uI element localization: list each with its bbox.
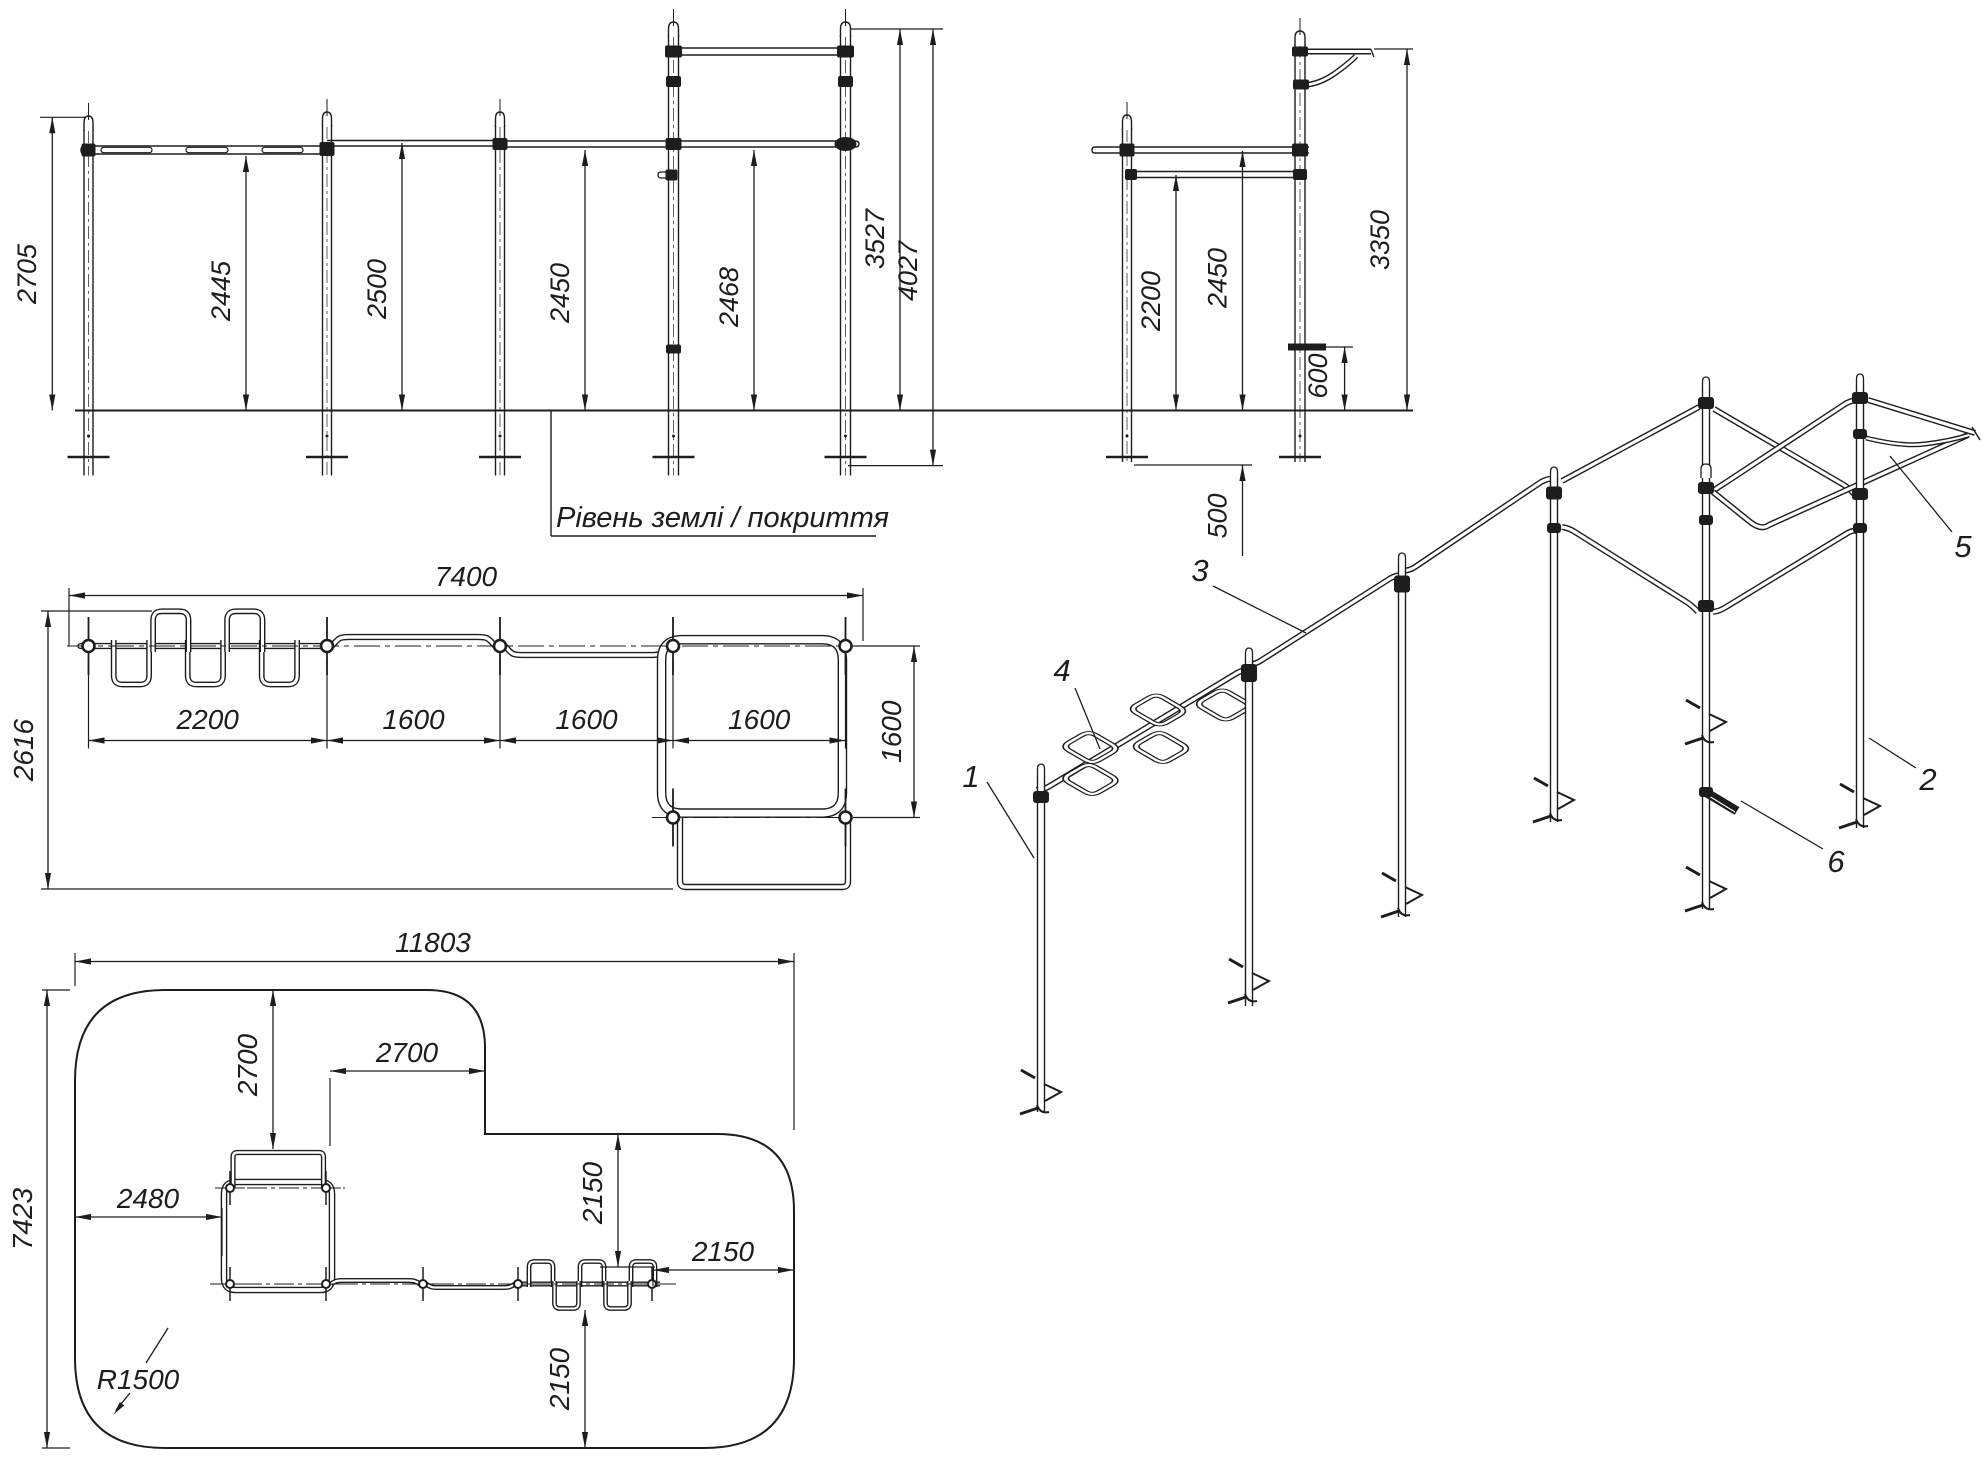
plan node post (845.5,646): [845, 617, 847, 675]
plan square bottom axis: [652, 817, 864, 819]
iso bar BL-FL: [1562, 527, 1698, 612]
post, bay1 left (2705): [83, 129, 85, 476]
side bar 2450: [1092, 147, 1309, 153]
dim 2500: [401, 143, 403, 411]
svg-text:2150: 2150: [577, 1161, 608, 1225]
dim 2700 vertical: [272, 990, 274, 1149]
FL cap dome: [1698, 397, 1714, 409]
high bar between tall posts (3527): [668, 47, 851, 49]
tall post right (4027): [840, 35, 842, 476]
iso serpentine rail: [1036, 670, 1254, 791]
svg-text:1600: 1600: [382, 704, 445, 735]
dim 2700 horizontal: [329, 1078, 331, 1146]
plan bar 1600 (below axis): [505, 646, 668, 655]
svg-text:1: 1: [962, 759, 979, 794]
dim 2150 horizontal: [652, 1270, 654, 1286]
iso serpentine loop up1: [1062, 731, 1119, 764]
mini square bar ring: [224, 1182, 332, 1290]
iso serpentine loop up2: [1130, 694, 1187, 727]
iso high bar FL-FR: [1712, 400, 1856, 492]
plan node post (327,646): [326, 617, 328, 675]
leader 1: [987, 782, 1034, 858]
mini node (423,1284): [422, 1267, 424, 1301]
clamp high bar left: [665, 46, 682, 58]
mini bar 1: [331, 1281, 420, 1285]
svg-text:2450: 2450: [545, 263, 575, 324]
dim 2450: [584, 150, 586, 411]
dim 2150 vertical upper: [600, 1266, 655, 1268]
mini node (518,1284): [517, 1267, 519, 1301]
dim 2468: [753, 150, 755, 411]
clamp post1/rail: [82, 144, 96, 157]
collar ring tall post right: [838, 76, 853, 87]
iso bar BR-FR: [1714, 409, 1854, 494]
mini bar 2: [426, 1284, 515, 1288]
svg-text:5: 5: [1954, 529, 1972, 564]
mini up-loop 2: [580, 1262, 604, 1288]
bar bay2 (2500): [327, 140, 500, 142]
svg-text:2150: 2150: [691, 1236, 755, 1267]
mini down-loop 2: [606, 1281, 630, 1309]
iso mid column BR over FL: [1702, 389, 1710, 909]
dim 2450 side: [1242, 151, 1244, 411]
mini node (230,1188): [229, 1171, 231, 1205]
dim 1600 vertical right: [853, 645, 920, 647]
site plan outline: [75, 990, 794, 1448]
ground-level leader: [550, 411, 552, 537]
iso rail P2-P3: [1249, 575, 1402, 665]
svg-text:600: 600: [1303, 353, 1333, 398]
plan node post (500,646): [499, 617, 501, 675]
dim 2150 vertical lower: [584, 1310, 586, 1448]
plan node post (88.5,646): [88, 617, 90, 675]
plan serpentine down-loop 2: [188, 640, 223, 685]
plan node post (673,817.5): [672, 789, 674, 847]
tall post left (4027): [668, 35, 670, 476]
iso serpentine loop down1: [1062, 763, 1119, 796]
dim 7400: [68, 588, 70, 646]
R1500 leader: [146, 1328, 168, 1363]
iso bracket tip tick: [1972, 427, 1980, 440]
leader 5: [1890, 456, 1952, 532]
iso rail P3-BL: [1402, 479, 1554, 572]
side view front post (2705): [1122, 128, 1124, 462]
svg-text:6: 6: [1827, 844, 1845, 879]
svg-text:2616: 2616: [8, 718, 39, 782]
svg-text:7423: 7423: [7, 1187, 38, 1250]
top bracket (item 5) side view: [1302, 49, 1371, 55]
svg-text:2700: 2700: [232, 1033, 263, 1097]
leader 6: [1741, 801, 1823, 849]
lower collar tall post left: [666, 345, 681, 354]
svg-text:2200: 2200: [176, 704, 240, 735]
iso anchor BR (mid column upper): [1686, 700, 1700, 708]
mini node (230,1284): [229, 1267, 231, 1301]
post, bay2/3: [495, 125, 497, 476]
svg-text:2200: 2200: [1136, 271, 1166, 332]
iso bracket bar item5: [1868, 400, 1975, 433]
svg-text:3: 3: [1191, 553, 1208, 588]
side view tall post: [1294, 44, 1296, 462]
svg-text:4027: 4027: [893, 240, 923, 301]
svg-text:2500: 2500: [362, 259, 392, 320]
plan square bar ring 1600x1600: [662, 640, 843, 813]
dim 2480: [221, 1208, 223, 1256]
plan node post (673,646): [672, 617, 674, 675]
svg-text:7400: 7400: [435, 561, 498, 592]
svg-text:1600: 1600: [555, 704, 618, 735]
iso bracket strut: [1866, 435, 1969, 445]
iso anchor BL: [1534, 778, 1548, 786]
mini up-loop 1: [529, 1262, 553, 1288]
clamp tall-post-left/bar: [666, 138, 682, 150]
side bar 2200: [1131, 171, 1302, 173]
dim 4027: [848, 465, 943, 467]
svg-text:R1500: R1500: [97, 1364, 180, 1395]
svg-text:3527: 3527: [860, 208, 890, 269]
collar ring tall post left: [666, 76, 681, 87]
svg-text:500: 500: [1203, 493, 1233, 538]
leader 3: [1213, 586, 1306, 633]
svg-text:Рівень землі / покриття: Рівень землі / покриття: [556, 502, 889, 534]
clamp high bar right: [837, 46, 854, 58]
leader 2: [1869, 738, 1916, 768]
dim 2705: [40, 116, 86, 118]
clamp post2/rail: [320, 142, 335, 156]
dim 2445: [245, 156, 247, 411]
svg-text:2468: 2468: [714, 267, 744, 328]
plan lower bar rectangle: [680, 818, 848, 887]
iso post 3: [1398, 565, 1406, 917]
dim 7423: [42, 989, 70, 991]
iso long brace FL to bracket tip: [1713, 435, 1968, 527]
mini node (326,1284): [325, 1267, 327, 1301]
iso bar FL-FR lower: [1713, 531, 1857, 612]
svg-text:4: 4: [1053, 653, 1070, 688]
iso anchor post1: [1021, 1070, 1035, 1078]
iso serpentine loop down2: [1133, 731, 1190, 764]
iso anchor FL (mid column lower): [1686, 867, 1700, 875]
monkey-bar rail bay1 (2445): [81, 146, 331, 154]
svg-text:2480: 2480: [116, 1183, 180, 1214]
dim 2616: [41, 610, 152, 612]
post, bay1/2 (2500): [322, 125, 324, 476]
clamp post3/bar: [493, 138, 508, 150]
plan serpentine down-loop 3: [262, 640, 297, 685]
iso post FR: [1856, 386, 1864, 828]
svg-text:2150: 2150: [544, 1347, 575, 1411]
iso post 1: [1037, 776, 1045, 1112]
dim 3350: [1374, 48, 1413, 50]
plan main axis center line: [67, 645, 858, 647]
mini up-loop 3: [631, 1262, 655, 1288]
svg-text:1600: 1600: [876, 700, 907, 763]
plan chained dims: [88, 659, 90, 749]
plan serpentine rail: [81, 643, 333, 649]
item 6 hatched sleeve: [1707, 793, 1737, 811]
mini upper rectangle: [233, 1153, 324, 1189]
dim 2200: [1175, 175, 1177, 411]
plan serpentine down-loop 1: [114, 640, 149, 685]
svg-text:2700: 2700: [375, 1037, 439, 1068]
svg-text:2705: 2705: [12, 243, 42, 305]
mini node (326,1188): [325, 1171, 327, 1205]
bar bay3-bay4 (2450/2468): [500, 141, 859, 147]
iso anchor post2: [1229, 959, 1243, 967]
svg-text:2450: 2450: [1203, 248, 1233, 309]
mini down-loop 1: [555, 1281, 579, 1309]
dim 3527: [850, 28, 943, 30]
plan bar 1600 (above axis): [332, 637, 495, 646]
iso post BL: [1550, 479, 1558, 822]
iso anchor post3: [1382, 873, 1396, 881]
plan serpentine up-loop 2: [227, 611, 262, 652]
iso post 2: [1245, 660, 1253, 1006]
iso anchor FR: [1840, 784, 1854, 792]
dim 11803: [74, 953, 76, 986]
mini node (652,1284): [651, 1267, 653, 1301]
small bracket on tall post left: [658, 172, 673, 178]
dim 600: [1317, 346, 1353, 348]
svg-text:2: 2: [1918, 762, 1936, 797]
iso serpentine loop down3: [1196, 689, 1253, 722]
mini serpentine rail: [521, 1282, 660, 1287]
plan node post (845.5,817.5): [845, 789, 847, 847]
iso bar BL-BR top: [1562, 407, 1699, 481]
plan serpentine up-loop 1: [153, 611, 188, 652]
svg-text:3350: 3350: [1365, 210, 1395, 270]
dim 500 below ground: [1134, 464, 1252, 466]
ground line: [75, 410, 1413, 412]
svg-text:11803: 11803: [395, 927, 471, 958]
svg-text:1600: 1600: [728, 704, 791, 735]
mini axis: [210, 1283, 676, 1285]
leader 4: [1075, 688, 1100, 749]
svg-text:2445: 2445: [206, 260, 236, 322]
